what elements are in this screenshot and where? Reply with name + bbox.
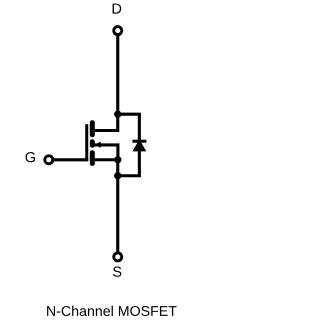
label D xyxy=(113,4,122,14)
transistor Q1 source bar xyxy=(90,153,95,164)
transistor Q1 drain bar xyxy=(90,123,95,135)
terminal S xyxy=(114,253,122,261)
wire body to source node xyxy=(93,145,118,160)
node junction B (diode return) xyxy=(114,172,121,179)
terminal D xyxy=(114,27,122,35)
node junction A (drain/diode) xyxy=(114,111,121,118)
diode D1 triangle xyxy=(132,139,146,151)
transistor Q1 gate line xyxy=(85,124,88,161)
label S xyxy=(113,267,121,277)
node junction source xyxy=(114,156,121,163)
wire drain vertical xyxy=(116,35,119,114)
label G xyxy=(26,152,35,162)
wire diode branch xyxy=(118,114,140,176)
wire gate xyxy=(53,158,88,161)
transistor Q1 body bar xyxy=(90,142,95,145)
terminal G xyxy=(45,156,53,164)
diode D1 cathode bar xyxy=(132,140,146,143)
wire source vertical xyxy=(116,160,119,253)
wire drain to MOSFET xyxy=(92,114,117,130)
wire source bar to junction xyxy=(92,158,117,161)
caption N-Channel MOSFET xyxy=(47,306,177,316)
transistor Q1 body arrow xyxy=(95,142,101,148)
